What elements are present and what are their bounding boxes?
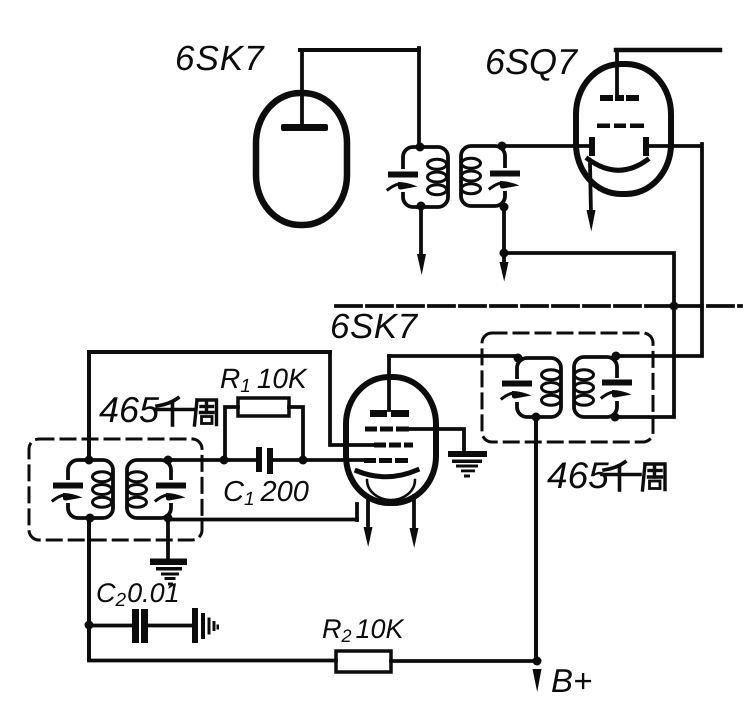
capacitor IFT-B secondary (trimmer) <box>490 171 520 189</box>
junction IFT-B primary top <box>416 143 425 152</box>
tube V2 diode plate right <box>643 137 649 156</box>
wire V3 suppressor to ground <box>409 429 464 452</box>
junction C2 tap <box>85 621 94 630</box>
wire V2 plate output <box>616 48 720 53</box>
coil IFT-B secondary <box>462 158 481 193</box>
ground symbol IFT-A <box>150 559 187 586</box>
tube V2 cathode <box>588 159 647 170</box>
tube V3 plate <box>370 410 409 417</box>
tube V2 6SQ7 envelope <box>576 64 671 194</box>
junction IFT-C secondary bottom <box>611 413 620 422</box>
svg-text:R110K: R110K <box>220 363 308 397</box>
resistor R2 <box>336 651 391 672</box>
glyph 千 (IFT-A label) <box>155 398 193 425</box>
IFT-C tank secondary box <box>574 357 617 417</box>
wire screen feed down <box>330 352 373 445</box>
wire V3 heater leg right <box>412 496 416 531</box>
svg-text:6SQ7: 6SQ7 <box>485 41 579 82</box>
IFT-C dashed box <box>482 333 653 442</box>
junction AVC tap <box>670 302 679 311</box>
wire B+ rail left vertical (lower) <box>87 517 91 659</box>
junction IFT-B secondary bottom <box>500 203 509 212</box>
wire diode right to detector tank <box>616 144 702 356</box>
svg-text:6SK7: 6SK7 <box>330 307 419 346</box>
junction IFT-B secondary top <box>498 142 507 151</box>
IFT-B tank primary box <box>403 147 448 207</box>
junction IFT-C primary bottom <box>532 413 541 422</box>
coil IFT-A primary <box>93 472 112 507</box>
capacitor IFT-C secondary (trimmer) <box>602 380 632 398</box>
capacitor C1 <box>256 447 273 474</box>
capacitor IFT-A secondary (trimmer) <box>156 483 186 501</box>
junction detector return <box>500 249 509 258</box>
coil IFT-A secondary <box>128 472 147 507</box>
svg-text:6SK7: 6SK7 <box>175 39 265 78</box>
glyph 千 (IFT-C label) <box>602 462 640 490</box>
ground symbol screen bypass <box>448 451 487 478</box>
ground arrow V3 leg right <box>410 528 419 548</box>
wire IFT-A secondary bottom to ground <box>166 518 170 559</box>
svg-text:B+: B+ <box>551 662 592 699</box>
glyph 周 (IFT-A label) <box>195 400 217 425</box>
junction grid RC left <box>220 456 229 465</box>
wire V1 plate to IFT-B primary <box>300 48 419 52</box>
tube V3 cathode <box>357 470 417 477</box>
IFT-A tank primary box <box>68 460 113 518</box>
glyph 周 (IFT-C label) <box>643 464 666 490</box>
wire IFT-B secondary bottom <box>502 207 506 264</box>
svg-text:465: 465 <box>99 389 160 430</box>
tube V1 6SK7 envelope <box>256 93 347 225</box>
wire V3 cathode stub <box>355 504 359 520</box>
wire R1 left lead <box>225 407 238 459</box>
coil IFT-C primary <box>542 370 561 405</box>
ground arrow detector <box>500 262 509 282</box>
ground arrow IFT-B primary <box>417 254 426 275</box>
wire B+ feed to IFT-C primary <box>534 417 538 662</box>
wire V2 plate lead <box>615 50 619 95</box>
wire bottom B+ run <box>89 659 537 663</box>
junction IFT-A primary bottom <box>86 514 95 523</box>
wire detector return run <box>504 253 674 417</box>
svg-text:R210K: R210K <box>322 614 405 646</box>
wire V3 heater leg left <box>366 497 370 530</box>
capacitor IFT-A primary (trimmer) <box>53 483 83 501</box>
tube V1 plate <box>281 124 328 131</box>
wire C2 lead <box>89 624 192 628</box>
junction IFT-C primary top <box>514 354 523 363</box>
wire screen supply top run <box>89 350 330 354</box>
wire R1 right lead <box>289 407 303 459</box>
junction IFT-A secondary bottom <box>164 514 173 523</box>
tube V3 6SK7 envelope <box>346 377 436 503</box>
tube V3 screen grid (dashed) <box>374 443 413 448</box>
svg-text:C20.01: C20.01 <box>96 578 180 611</box>
coil IFT-C secondary <box>575 370 594 405</box>
AVC dashed line <box>336 304 741 308</box>
junction B+ <box>533 657 542 666</box>
junction IFT-C secondary top <box>612 352 621 361</box>
svg-text:465: 465 <box>547 455 609 496</box>
IFT-C tank primary box <box>517 358 561 417</box>
ground arrow V3 leg left <box>364 527 373 547</box>
wire V3 grid from IFT-A secondary <box>168 458 364 462</box>
tube V3 base cup <box>367 480 415 500</box>
junction IFT-A primary top <box>85 456 94 465</box>
svg-text:C1200: C1200 <box>223 476 309 510</box>
junction grid RC right <box>299 456 308 465</box>
tube V3 control grid (dashed) <box>364 458 408 463</box>
IFT-A dashed box <box>29 439 202 540</box>
coil IFT-B primary <box>428 159 447 194</box>
tube V2 plate <box>600 95 639 101</box>
IFT-A tank secondary box <box>127 460 171 518</box>
capacitor IFT-C primary (trimmer) <box>502 381 532 399</box>
wire down to IFT-B primary top <box>417 48 421 147</box>
wire V3 plate to IFT-C <box>389 354 518 358</box>
tube V2 grid (dashed) <box>597 124 644 129</box>
wire IFT-B secondary to diode <box>502 144 591 148</box>
junction IFT-B primary bottom <box>417 202 426 211</box>
wire cathode return <box>170 518 357 522</box>
wire V3 plate lead <box>387 356 391 410</box>
ground arrow V2 cathode <box>587 210 596 232</box>
arrow B+ <box>533 669 542 692</box>
wire IFT-B primary bottom <box>419 207 423 257</box>
capacitor C2 <box>132 609 148 643</box>
IFT-B tank secondary box <box>461 146 505 206</box>
capacitor IFT-B primary (trimmer) <box>388 172 418 190</box>
wire V1 plate lead <box>300 50 304 124</box>
wire B+ rail left vertical (upper) <box>87 352 91 460</box>
tube V3 suppressor grid (dashed) <box>365 427 409 432</box>
resistor R1 <box>238 398 289 416</box>
chassis ground C2 <box>192 608 219 643</box>
tube V2 diode plate left <box>589 137 595 156</box>
junction IFT-A secondary top <box>164 456 173 465</box>
wire V2 cathode lead <box>590 163 591 214</box>
